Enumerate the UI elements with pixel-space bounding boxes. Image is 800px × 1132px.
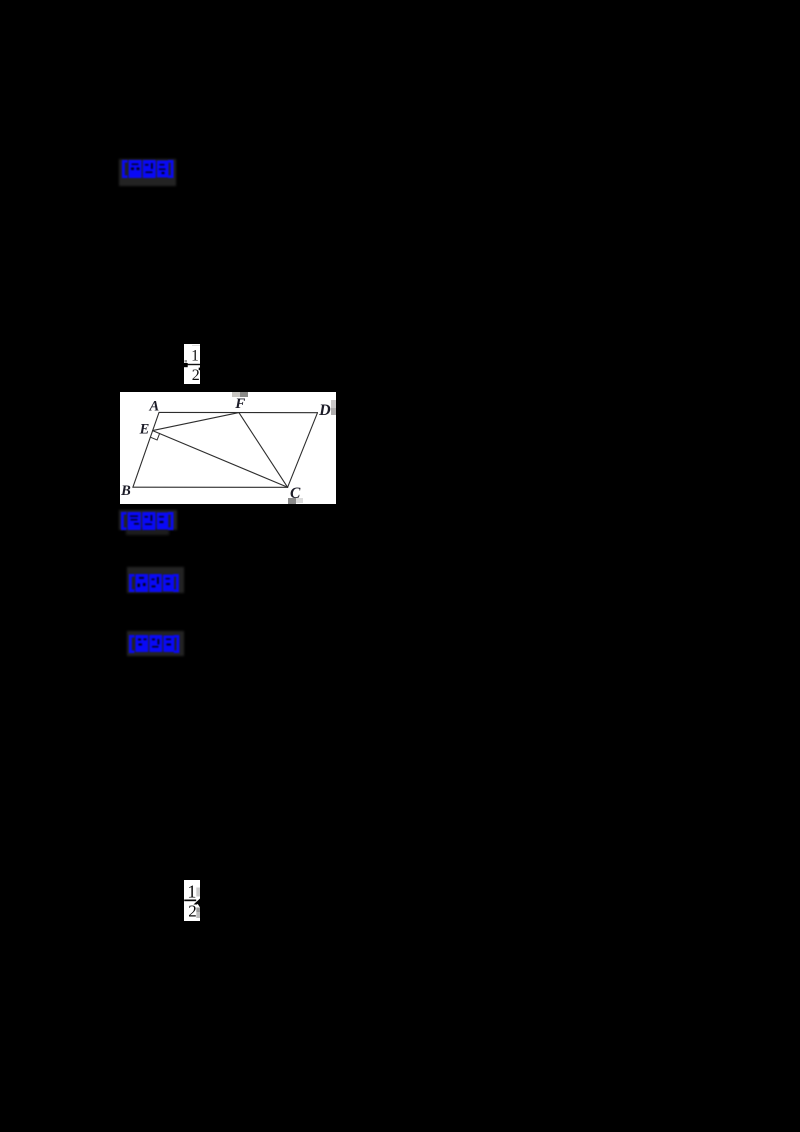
fraction image 1: white box with 1/2 xyxy=(184,344,200,384)
svg-text:1: 1 xyxy=(187,881,196,901)
section header halo 4 xyxy=(127,631,184,656)
wire side BC xyxy=(132,486,287,488)
wire segment EC xyxy=(152,431,287,488)
wire segment FC xyxy=(238,413,287,488)
section header 【考点】 (blue) xyxy=(120,511,175,531)
gray artifact below C (dark part) xyxy=(288,498,296,504)
section header 【分析】 (blue) xyxy=(128,573,180,593)
fraction bar xyxy=(184,900,196,902)
svg-text:E: E xyxy=(138,422,149,438)
faint top gray line xyxy=(192,345,200,346)
gray artifact right of D (light upper) xyxy=(331,400,336,408)
fraction image 2: white box with 1/2 xyxy=(184,880,200,921)
figure image box (white) xyxy=(120,392,337,504)
wire side DC xyxy=(287,413,317,488)
left black notch xyxy=(184,363,188,367)
section header halo 1 xyxy=(119,159,176,186)
gray right strip top xyxy=(196,888,200,897)
wire side AB xyxy=(132,412,158,487)
section header halo 3 xyxy=(127,567,184,593)
svg-text:B: B xyxy=(120,483,131,499)
section header 【解答】 (blue) xyxy=(128,634,181,654)
gray artifact right of D (lower) xyxy=(331,408,336,415)
black tick right of 2 xyxy=(199,368,201,371)
gray right strip lower xyxy=(196,908,200,913)
right-angle mark at E xyxy=(150,433,159,440)
fraction bar xyxy=(188,364,201,365)
section header 【点评】 (blue) xyxy=(121,159,175,179)
black diagonal wedge right-middle xyxy=(194,899,201,905)
gray artifact below C (light part) xyxy=(296,498,304,503)
svg-text:F: F xyxy=(234,396,245,412)
gray artifact above F (light half) xyxy=(232,392,241,397)
gray artifact above F (dark half) xyxy=(240,392,248,397)
section header halo 2 xyxy=(119,510,177,530)
wire segment EF xyxy=(152,413,238,431)
wire side AD xyxy=(159,411,318,413)
svg-text:1: 1 xyxy=(191,348,199,365)
gray speck above notch xyxy=(185,360,188,363)
svg-text:D: D xyxy=(318,402,331,419)
svg-text:A: A xyxy=(148,399,159,415)
svg-text:2: 2 xyxy=(192,367,200,384)
